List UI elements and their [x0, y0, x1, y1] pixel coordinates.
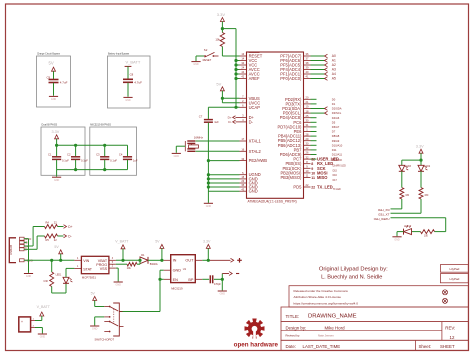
svg-text:LilyPad: LilyPad	[449, 267, 459, 271]
svg-text:D16: D16	[333, 175, 338, 177]
svg-text:MCP73831: MCP73831	[82, 275, 96, 279]
svg-text:3: 3	[112, 258, 114, 260]
svg-text:D1: D1	[332, 102, 336, 106]
svg-text:Dual BYPASS: Dual BYPASS	[42, 124, 58, 127]
svg-text:28: 28	[306, 132, 309, 136]
svg-text:9: 9	[306, 165, 308, 169]
svg-text:8: 8	[311, 162, 313, 166]
svg-text:1: 1	[306, 128, 308, 132]
svg-text:D3/SCL: D3/SCL	[332, 111, 342, 115]
svg-text:5V: 5V	[54, 245, 59, 249]
svg-text:GND: GND	[116, 284, 122, 287]
svg-text:Charge Circuit Bypass: Charge Circuit Bypass	[37, 52, 61, 55]
svg-text:R5: R5	[46, 238, 50, 242]
svg-text:MISO: MISO	[317, 175, 328, 180]
svg-text:PB3(MISO): PB3(MISO)	[280, 175, 302, 180]
svg-text:SHEET: SHEET	[440, 344, 455, 349]
svg-text:0.1uF: 0.1uF	[110, 159, 117, 163]
svg-text:5V: 5V	[91, 292, 96, 296]
svg-text:IN: IN	[173, 259, 177, 263]
svg-text:D13/SCK: D13/SCK	[333, 160, 343, 162]
svg-text:D8/A8: D8/A8	[332, 134, 340, 138]
svg-text:MIC5219 BYPASS: MIC5219 BYPASS	[90, 124, 111, 127]
svg-text:OUT: OUT	[185, 259, 194, 263]
svg-text:5: 5	[112, 262, 114, 264]
svg-text:D1: D1	[141, 253, 145, 257]
svg-text:C2: C2	[67, 153, 71, 157]
svg-text:3.3V: 3.3V	[52, 130, 60, 134]
svg-text:A5: A5	[332, 77, 336, 81]
svg-text:USER_LED: USER_LED	[373, 217, 390, 221]
svg-text:GND: GND	[54, 179, 60, 182]
svg-text:A1: A1	[332, 59, 336, 63]
svg-text:GND: GND	[125, 99, 131, 102]
svg-text:5V: 5V	[216, 82, 221, 87]
svg-text:3.3V: 3.3V	[217, 12, 226, 17]
svg-text:17: 17	[241, 137, 244, 141]
svg-text:330: 330	[424, 236, 429, 238]
svg-text:D14/RX LED: D14/RX LED	[333, 165, 346, 167]
svg-text:Sheet:: Sheet:	[419, 344, 432, 349]
svg-text:LED3: LED3	[405, 166, 411, 168]
svg-text:U1: U1	[183, 267, 187, 271]
svg-text:Mike Hord: Mike Hord	[325, 325, 346, 330]
svg-text:D-: D-	[228, 120, 231, 124]
svg-text:32: 32	[311, 158, 315, 162]
svg-text:4.7uF: 4.7uF	[60, 81, 68, 85]
svg-text:RESET: RESET	[203, 58, 212, 62]
svg-text:0.1uF: 0.1uF	[62, 159, 69, 163]
svg-text:MIC5219: MIC5219	[171, 286, 183, 290]
svg-text:D7: D7	[332, 130, 336, 134]
svg-text:GND: GND	[249, 189, 258, 194]
svg-text:4: 4	[77, 258, 79, 260]
svg-text:D4/A6: D4/A6	[332, 116, 340, 120]
svg-text:26: 26	[306, 151, 309, 155]
svg-text:A4: A4	[332, 72, 336, 76]
svg-text:Battery Input Bypass: Battery Input Bypass	[108, 52, 130, 55]
svg-text:10k: 10k	[215, 38, 220, 42]
svg-text:LilyPad: LilyPad	[449, 277, 459, 281]
svg-text:GND: GND	[173, 269, 182, 273]
svg-text:D-: D-	[249, 119, 254, 124]
svg-text:open hardware: open hardware	[234, 343, 279, 349]
svg-text:R4: R4	[46, 221, 50, 225]
svg-text:VIN: VIN	[83, 259, 89, 263]
svg-text:LED1: LED1	[404, 226, 410, 228]
svg-text:330: 330	[405, 195, 410, 197]
svg-text:1uF: 1uF	[214, 120, 219, 124]
svg-text:D17: D17	[333, 180, 338, 182]
svg-text:Released under the Creative Co: Released under the Creative Commons	[294, 289, 349, 293]
svg-text:UCAP: UCAP	[249, 105, 261, 110]
svg-text:3.3V: 3.3V	[416, 144, 424, 148]
svg-text:22: 22	[54, 238, 57, 242]
svg-text:V_BATT: V_BATT	[126, 59, 141, 64]
svg-text:29: 29	[306, 137, 309, 141]
svg-text:D0: D0	[332, 97, 336, 101]
svg-text:ATMEGA32U4(1:1-LESS_PRSTR): ATMEGA32U4(1:1-LESS_PRSTR)	[248, 200, 297, 204]
svg-text:GND: GND	[394, 238, 400, 241]
svg-text:https://creativecommons.org/li: https://creativecommons.org/licenses/by-…	[294, 301, 359, 305]
svg-text:11: 11	[311, 176, 315, 180]
svg-text:XTAL2: XTAL2	[249, 149, 262, 154]
svg-text:2: 2	[112, 266, 114, 268]
svg-text:A2: A2	[332, 63, 336, 67]
svg-text:GND: GND	[92, 328, 98, 331]
svg-text:12: 12	[450, 335, 455, 340]
svg-text:35: 35	[241, 183, 244, 187]
svg-text:+: +	[21, 320, 23, 324]
svg-text:8: 8	[306, 160, 308, 164]
svg-text:LAST_DATE_TIME: LAST_DATE_TIME	[303, 344, 341, 349]
svg-text:22: 22	[54, 221, 57, 225]
svg-text:D+: D+	[68, 225, 72, 229]
svg-text:LED1: LED1	[56, 274, 62, 276]
svg-text:Original Lilypad Design by:: Original Lilypad Design by:	[319, 266, 388, 272]
svg-text:A3: A3	[332, 68, 336, 72]
svg-text:10k: 10k	[127, 266, 132, 270]
svg-text:A0: A0	[332, 54, 336, 58]
svg-text:4.7uF: 4.7uF	[134, 80, 142, 84]
svg-text:D15: D15	[333, 171, 338, 173]
svg-text:Design by:: Design by:	[286, 325, 307, 330]
svg-text:Nate Jensen: Nate Jensen	[318, 334, 334, 338]
svg-text:GND: GND	[26, 275, 32, 278]
svg-text:Attribution Share-Alike 4.0 Li: Attribution Share-Alike 4.0 License	[294, 295, 342, 299]
svg-text:5: 5	[242, 171, 244, 175]
svg-text:C9: C9	[47, 75, 51, 79]
svg-text:D5: D5	[332, 120, 336, 124]
svg-text:BP: BP	[188, 278, 194, 282]
svg-text:TX_LED: TX_LED	[377, 212, 389, 216]
svg-text:33: 33	[241, 157, 244, 161]
svg-text:10: 10	[311, 171, 315, 175]
svg-text:D9/A9: D9/A9	[332, 139, 340, 143]
svg-text:5V: 5V	[49, 60, 54, 65]
svg-text:30: 30	[306, 142, 309, 146]
svg-text:GND: GND	[40, 336, 46, 339]
svg-text:11: 11	[306, 174, 309, 178]
svg-text:USBAB: USBAB	[9, 245, 13, 255]
svg-text:470pF: 470pF	[214, 283, 221, 286]
svg-text:330: 330	[424, 195, 429, 197]
svg-text:PD5: PD5	[293, 185, 302, 190]
svg-text:Revised by:: Revised by:	[286, 334, 301, 338]
svg-text:XTAL1: XTAL1	[249, 139, 262, 144]
svg-text:TX LED: TX LED	[333, 189, 341, 191]
svg-text:C1: C1	[48, 153, 52, 157]
svg-text:S2: S2	[204, 48, 208, 52]
svg-text:TX_LED: TX_LED	[317, 185, 333, 190]
svg-text:D6/A7: D6/A7	[332, 125, 340, 129]
svg-text:GND: GND	[206, 205, 212, 208]
svg-text:REV:: REV:	[445, 326, 455, 331]
svg-text:V_BATT: V_BATT	[37, 305, 51, 309]
svg-text:9: 9	[311, 167, 313, 171]
svg-text:SWITCH-DPDT: SWITCH-DPDT	[95, 338, 115, 342]
svg-text:3.3V: 3.3V	[203, 240, 211, 244]
svg-text:D10/A10: D10/A10	[332, 143, 343, 147]
svg-text:L. Buechly and N. Seidle: L. Buechly and N. Seidle	[321, 274, 382, 280]
svg-text:C8: C8	[130, 73, 134, 77]
svg-text:D11: D11	[332, 148, 337, 152]
svg-text:16MHz: 16MHz	[194, 136, 204, 140]
svg-text:EN: EN	[173, 278, 179, 282]
svg-text:23: 23	[241, 179, 244, 183]
svg-text:VSS: VSS	[100, 267, 108, 271]
svg-text:C3: C3	[96, 153, 100, 157]
svg-text:GND: GND	[220, 293, 226, 296]
svg-text:0.1uF: 0.1uF	[81, 159, 88, 163]
svg-text:D+: D+	[228, 116, 232, 120]
svg-text:GND: GND	[193, 63, 199, 66]
svg-text:AREF: AREF	[249, 76, 260, 81]
svg-text:C4: C4	[119, 153, 123, 157]
svg-text:DRAWING_NAME: DRAWING_NAME	[308, 314, 357, 320]
svg-text:PE2/HWB: PE2/HWB	[249, 158, 268, 163]
svg-text:C7: C7	[199, 115, 203, 119]
svg-text:PF0(ADC0): PF0(ADC0)	[280, 76, 302, 81]
svg-text:B340A: B340A	[150, 262, 158, 266]
svg-text:43: 43	[241, 187, 244, 191]
svg-text:GND: GND	[51, 98, 57, 101]
svg-text:3.3K: 3.3K	[43, 280, 48, 283]
svg-text:22: 22	[306, 183, 309, 187]
svg-text:5V: 5V	[155, 240, 160, 244]
svg-text:1: 1	[77, 266, 79, 268]
svg-text:32: 32	[306, 155, 309, 159]
svg-text:GND: GND	[174, 155, 180, 158]
svg-text:D-: D-	[68, 235, 71, 239]
svg-text:STAT: STAT	[83, 267, 93, 271]
svg-text:1uF: 1uF	[133, 159, 138, 163]
svg-text:D2/SDA: D2/SDA	[332, 107, 342, 111]
svg-text:16: 16	[241, 148, 244, 152]
svg-text:TITLE:: TITLE:	[286, 314, 300, 319]
svg-text:LED2: LED2	[424, 166, 430, 168]
svg-text:Date:: Date:	[286, 344, 297, 349]
svg-text:22: 22	[311, 186, 315, 190]
svg-text:V_BATT: V_BATT	[115, 240, 129, 244]
